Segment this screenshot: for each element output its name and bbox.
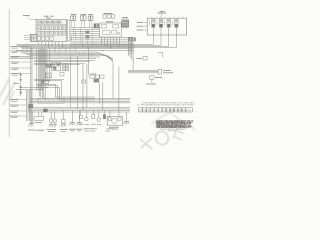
svg-text:10. THIS DIAGRAM SHOWS CIRCUIT: 10. THIS DIAGRAM SHOWS CIRCUITS FOR US A…: [137, 104, 195, 107]
svg-text:W: W: [147, 110, 149, 112]
svg-text:1999-2009: 1999-2009: [168, 131, 176, 133]
svg-text:V/W: V/W: [187, 110, 191, 112]
svg-text:LG: LG: [182, 110, 185, 112]
svg-text:BR: BR: [171, 110, 174, 112]
